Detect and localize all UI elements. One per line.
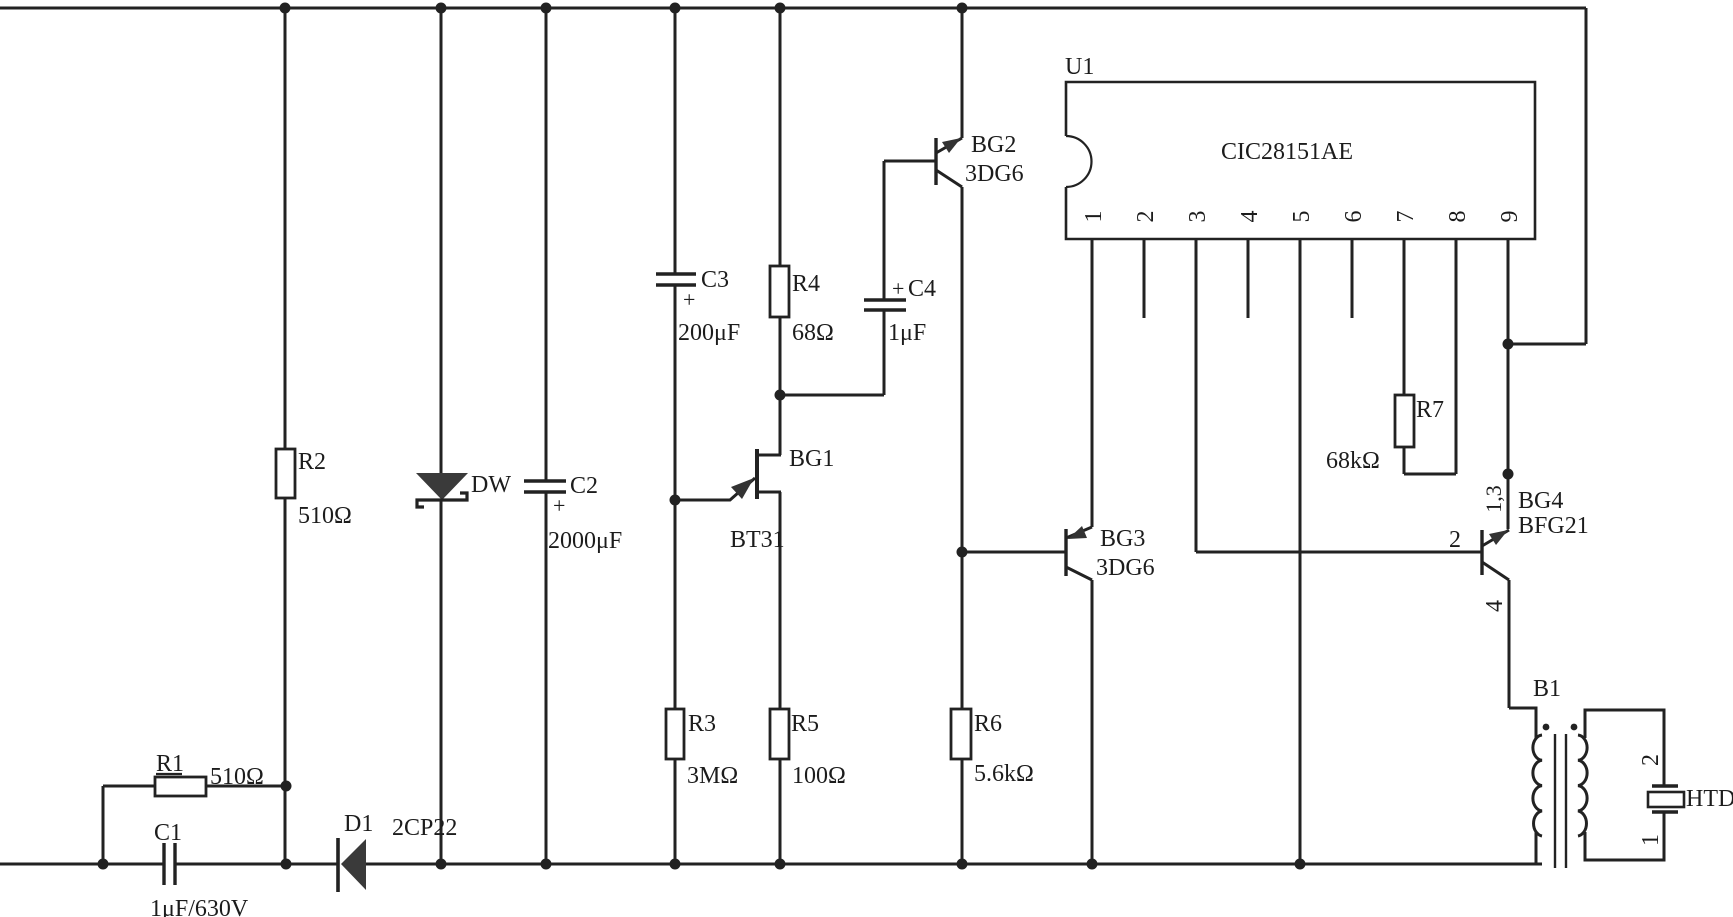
transistor BG3 [1066, 526, 1092, 580]
wire R7 bottom lead [1403, 447, 1406, 474]
junction node BG4 collector [1503, 469, 1514, 480]
svg-text:CIC28151AE: CIC28151AE [1221, 139, 1353, 165]
svg-text:DW: DW [471, 472, 511, 498]
svg-text:+: + [683, 287, 695, 312]
IC U1 notch [1066, 136, 1092, 187]
svg-text:1μF/630V: 1μF/630V [150, 896, 249, 917]
svg-text:BG3: BG3 [1100, 526, 1145, 552]
wire HTD bottom return [1585, 812, 1664, 860]
transformer B1 core [1555, 734, 1566, 868]
junction bottom rail at C2 [541, 859, 552, 870]
svg-text:BG1: BG1 [789, 446, 834, 472]
wire right riser to top rail [1585, 8, 1588, 344]
diode D1 [338, 838, 366, 892]
wire BG4 to B1 primary top [1509, 708, 1536, 738]
capacitor C2 [524, 481, 566, 492]
transformer B1 primary winding [1533, 735, 1542, 836]
wire C2 column upper [545, 8, 548, 481]
wire C3/R3 column upper [674, 8, 677, 274]
wire DW column upper [440, 8, 443, 474]
svg-text:R3: R3 [688, 711, 716, 737]
wire bottom ground rail C1 to D1 [175, 863, 337, 866]
svg-text:BFG21: BFG21 [1518, 513, 1589, 539]
wire R1 left lead [103, 785, 155, 788]
transistor BG1 (UJT) [675, 449, 781, 500]
zener diode DW [416, 473, 468, 507]
junction top rail at R2 [280, 3, 291, 14]
svg-text:HTD: HTD [1686, 786, 1733, 812]
svg-text:2000μF: 2000μF [548, 528, 622, 554]
wire R4 column upper [779, 8, 782, 266]
wire R5 column lower [779, 759, 782, 864]
junction node BG1 emitter [670, 495, 681, 506]
junction node BG3 base [957, 547, 968, 558]
svg-text:9: 9 [1497, 211, 1523, 223]
svg-text:68kΩ: 68kΩ [1326, 448, 1380, 474]
svg-text:2: 2 [1449, 527, 1461, 553]
svg-text:68Ω: 68Ω [792, 320, 834, 346]
svg-text:1: 1 [1638, 834, 1664, 846]
wire DW column lower [440, 501, 443, 864]
svg-text:C1: C1 [154, 820, 182, 846]
svg-text:R2: R2 [298, 449, 326, 475]
wire IC pin2 stub [1143, 239, 1146, 318]
junction top rail at C3 [670, 3, 681, 14]
resistor R4 [770, 266, 789, 317]
junction node R1 right [281, 781, 292, 792]
svg-text:U1: U1 [1065, 54, 1094, 80]
transformer B1 phase dot secondary [1571, 724, 1578, 731]
wire BG3 base [962, 551, 1066, 554]
wire C2 column lower [545, 492, 548, 864]
svg-text:R7: R7 [1416, 397, 1444, 423]
junction bottom rail at C1 left [98, 859, 109, 870]
svg-text:100Ω: 100Ω [792, 763, 846, 789]
wire IC pin1 column [1091, 239, 1094, 527]
label R1 underline [156, 773, 182, 775]
transformer B1 phase dot primary [1543, 724, 1550, 731]
junction bottom rail at R2 [281, 859, 292, 870]
junction node R4/C4 [775, 390, 786, 401]
svg-text:R6: R6 [974, 711, 1002, 737]
buzzer HTD [1648, 786, 1684, 812]
capacitor C4 [864, 300, 906, 310]
transformer B1 secondary winding [1578, 735, 1587, 836]
svg-text:B1: B1 [1533, 676, 1561, 702]
wire R4 bottom to BG1 B2 [779, 317, 782, 455]
wire B1 secondary top to HTD [1585, 710, 1664, 786]
wire R2 column lower [284, 498, 287, 864]
svg-text:5: 5 [1289, 211, 1315, 223]
wire BG2 base [884, 160, 936, 163]
wire top supply rail [0, 7, 1586, 10]
svg-text:BG2: BG2 [971, 132, 1016, 158]
wire IC pin7 to R7 [1403, 239, 1406, 395]
junction bottom rail at BG3 [1087, 859, 1098, 870]
junction bottom rail at DW [436, 859, 447, 870]
wire IC pin5 column to ground [1299, 239, 1302, 864]
wire BG2 emitter column down to BG3 base node [961, 187, 964, 709]
wire bottom ground rail D1 to B1 [366, 863, 1542, 866]
wire R6 column lower [961, 759, 964, 864]
capacitor C1 [164, 843, 175, 885]
junction bottom rail at R5 [775, 859, 786, 870]
wire BG4 emitter lead down [1508, 580, 1511, 708]
svg-text:200μF: 200μF [678, 320, 740, 346]
resistor R3 [666, 709, 684, 759]
svg-text:3: 3 [1185, 211, 1211, 223]
svg-text:C4: C4 [908, 276, 936, 302]
wire R7 to pin8 horizontal [1404, 473, 1456, 476]
wire IC pin3 column [1195, 239, 1198, 552]
svg-text:R4: R4 [792, 271, 820, 297]
wire R1 right lead [206, 785, 286, 788]
IC U1 body [1066, 82, 1535, 239]
wire IC pin8 column [1455, 239, 1458, 474]
resistor R2 [276, 449, 295, 498]
junction bottom rail at R6 [957, 859, 968, 870]
wire IC pin6 stub [1351, 239, 1354, 318]
svg-text:2: 2 [1133, 211, 1159, 223]
svg-text:+: + [892, 276, 904, 301]
wire R1 loop left vertical [102, 786, 105, 864]
svg-text:6: 6 [1341, 211, 1367, 223]
svg-text:R5: R5 [791, 711, 819, 737]
wire B1 primary bottom to ground [1535, 832, 1538, 864]
junction top rail at DW [436, 3, 447, 14]
svg-text:3DG6: 3DG6 [965, 161, 1024, 187]
svg-text:1μF: 1μF [888, 320, 926, 346]
junction bottom rail at R3 [670, 859, 681, 870]
wire IC pin3 to BG4 base [1196, 551, 1482, 554]
svg-text:BT31: BT31 [730, 527, 785, 553]
svg-text:2CP22: 2CP22 [392, 815, 457, 841]
wire C4/R4 junction link [780, 394, 884, 397]
wire IC pin9 column [1507, 239, 1510, 529]
transistor BG2 [936, 138, 962, 187]
svg-text:1: 1 [1081, 211, 1107, 223]
wire BG1 B1 to R5 [779, 492, 782, 709]
resistor R6 [951, 709, 971, 759]
wire pin9 to right riser [1508, 343, 1586, 346]
svg-text:8: 8 [1445, 211, 1471, 223]
wire BG3 emitter column to ground [1091, 580, 1094, 864]
svg-text:1,3: 1,3 [1481, 485, 1506, 513]
junction bottom rail at pin5 [1295, 859, 1306, 870]
wire C3/R3 column middle [674, 285, 677, 709]
svg-text:2: 2 [1638, 754, 1664, 766]
transistor BG4 [1482, 530, 1509, 580]
junction node pin9 riser [1503, 339, 1514, 350]
wire R3 column lower [674, 759, 677, 864]
svg-text:3DG6: 3DG6 [1096, 555, 1155, 581]
svg-text:510Ω: 510Ω [210, 764, 264, 790]
wire IC pin4 stub [1247, 239, 1250, 318]
resistor R1 [155, 777, 206, 796]
junction top rail at C2 [541, 3, 552, 14]
wire BG2 collector column to top rail [961, 8, 964, 138]
junction top rail at R4 [775, 3, 786, 14]
junction top rail at BG2 [957, 3, 968, 14]
svg-text:+: + [553, 493, 565, 518]
svg-text:510Ω: 510Ω [298, 503, 352, 529]
svg-text:C3: C3 [701, 267, 729, 293]
svg-text:C2: C2 [570, 473, 598, 499]
wire C4 bottom lead [883, 310, 886, 395]
resistor R7 [1395, 395, 1414, 447]
svg-text:BG4: BG4 [1518, 488, 1563, 514]
wire C4 top lead [883, 161, 886, 300]
wire bottom ground rail left of C1 [0, 863, 164, 866]
svg-text:3MΩ: 3MΩ [687, 763, 738, 789]
svg-text:D1: D1 [344, 811, 373, 837]
svg-text:4: 4 [1237, 211, 1263, 223]
svg-text:4: 4 [1482, 600, 1508, 612]
svg-text:7: 7 [1393, 211, 1419, 223]
svg-text:5.6kΩ: 5.6kΩ [974, 761, 1034, 787]
wire R2 column upper [284, 8, 287, 449]
capacitor C3 [656, 274, 696, 285]
resistor R5 [770, 709, 789, 759]
